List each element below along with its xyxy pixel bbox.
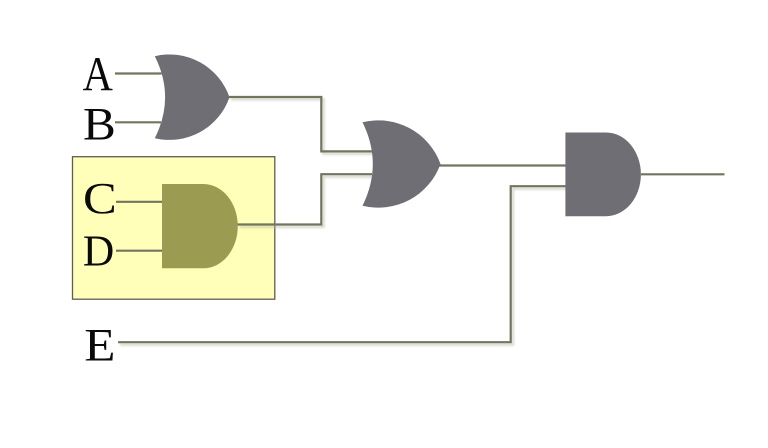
svg-text:B: B [83, 99, 116, 150]
svg-text:D: D [83, 227, 114, 275]
wire A input shadow [117, 75, 165, 77]
svg-text:E: E [84, 318, 115, 371]
wire U4 output shadow [643, 176, 727, 178]
wire D input [116, 250, 163, 252]
wire B input [115, 121, 161, 123]
wire U4 output [641, 173, 725, 175]
wire U2 output to U3 lower input shadow [240, 177, 375, 227]
or-gate U3 [363, 120, 441, 207]
wire U3 output to U4 upper input shadow [441, 167, 569, 169]
wire E input to U4 lower input [118, 186, 567, 342]
highlight box around AND gate U2 [73, 157, 275, 300]
wire C input [116, 201, 163, 203]
and-gate U2 [162, 184, 238, 268]
wire C input shadow [118, 203, 165, 205]
and-gate U4 [565, 133, 640, 217]
wire D input shadow [118, 252, 165, 254]
wire U1 output to U3 upper input [229, 97, 372, 151]
wire U3 output to U4 upper input [439, 164, 567, 166]
or-gate U1 [155, 54, 230, 139]
svg-text:C: C [83, 175, 117, 223]
wire U1 output to U3 upper input shadow [231, 99, 374, 153]
svg-text:A: A [83, 46, 113, 101]
wire A input [115, 72, 162, 74]
wire U2 output to U3 lower input [238, 174, 373, 224]
wire E input to U4 lower input shadow [120, 189, 569, 345]
wire B input shadow [117, 124, 165, 126]
